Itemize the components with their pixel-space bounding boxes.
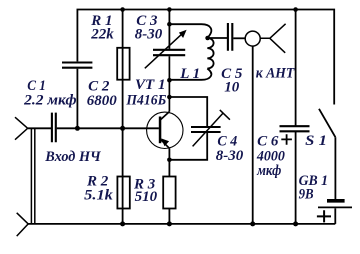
wire coil tap to C5 — [207, 37, 227, 39]
capacitor C6 plates — [280, 126, 310, 131]
node bottom bus C6 — [293, 221, 298, 226]
capacitor C2 — [62, 63, 92, 68]
wire input shield double line — [31, 128, 34, 224]
resistor R2 — [117, 177, 129, 209]
wire base wire C1 to transistor base — [57, 127, 159, 129]
svg-text:Вход НЧ: Вход НЧ — [44, 149, 101, 165]
svg-text:10: 10 — [224, 79, 240, 95]
capacitor C4 trimmer arrow — [193, 110, 230, 146]
inductor L1 — [202, 24, 214, 80]
svg-text:510: 510 — [135, 189, 158, 205]
wire C4 bottom to emitter — [169, 133, 207, 160]
wire coil top lead — [169, 23, 201, 25]
svg-text:8-30: 8-30 — [135, 27, 163, 43]
svg-text:5.1k: 5.1k — [84, 188, 113, 204]
node base wire C2 — [75, 126, 80, 131]
wire antenna connector ground drop — [252, 46, 254, 224]
svg-text:к АНТ: к АНТ — [256, 65, 295, 81]
node input wire left segment — [28, 127, 51, 129]
node coil tap — [205, 36, 210, 41]
node emitter C4 R3 — [167, 158, 172, 163]
capacitor C6 plus sign — [281, 134, 292, 145]
svg-text:мкф: мкф — [256, 163, 281, 179]
battery GB1 positive plate — [318, 206, 352, 208]
wire C6 branch — [295, 10, 297, 224]
svg-text:9В: 9В — [299, 186, 314, 202]
node top bus tank — [167, 7, 172, 12]
svg-text:L 1: L 1 — [179, 66, 200, 82]
svg-text:S 1: S 1 — [305, 133, 327, 149]
capacitor C3 arrow — [145, 33, 183, 68]
wire R1 R2 branch vertical — [122, 10, 124, 224]
battery GB1 plus sign — [317, 210, 331, 222]
svg-text:6800: 6800 — [87, 93, 118, 109]
svg-text:C 2: C 2 — [88, 79, 110, 95]
wire battery to bottom bus — [334, 208, 336, 224]
svg-text:8-30: 8-30 — [216, 148, 244, 164]
resistor R3 — [163, 177, 175, 209]
wire tank branch upper — [168, 10, 170, 49]
resistor R1 — [117, 48, 129, 80]
wire tank branch lower to collector — [160, 56, 170, 120]
svg-text:22k: 22k — [90, 27, 114, 43]
wire C5 to antenna connector — [233, 37, 245, 39]
svg-text:4000: 4000 — [256, 148, 285, 164]
node bottom bus R2 — [120, 221, 125, 226]
capacitor C1 — [52, 113, 56, 143]
node bottom bus R3 — [167, 221, 172, 226]
capacitor C5 — [228, 23, 232, 51]
capacitor C4 plates — [191, 127, 221, 132]
transistor VT1 emitter arrowhead — [161, 138, 169, 146]
svg-text:2.2 мкф: 2.2 мкф — [23, 93, 77, 109]
node tank top coil branch — [167, 22, 172, 27]
input terminal bottom chevron — [17, 213, 29, 236]
wire collector to C4 top — [169, 97, 207, 126]
node top bus R1 — [120, 7, 125, 12]
wire coil bottom lead — [169, 79, 201, 81]
antenna connector circle — [245, 31, 260, 46]
svg-text:C 6: C 6 — [257, 134, 279, 150]
node top bus C6 — [293, 7, 298, 12]
transistor VT1 circle — [147, 112, 183, 148]
capacitor C3 plates — [153, 50, 185, 55]
svg-text:VT 1: VT 1 — [135, 77, 166, 93]
wire C2 bottom to base wire — [76, 69, 78, 129]
input terminal top chevron — [15, 117, 28, 140]
wire bottom bus — [28, 223, 335, 225]
node base wire R1 R2 — [120, 126, 125, 131]
node bottom bus antenna ground — [250, 221, 255, 226]
transistor VT1 emitter diagonal — [160, 139, 170, 149]
node tank bottom coil branch — [167, 78, 172, 83]
transistor VT1 base bar — [159, 117, 162, 144]
wire top bus with left drop to C2 and right drop to S1 contact — [77, 10, 334, 105]
wire emitter down through R3 to bus — [168, 148, 170, 224]
wire S1 to battery — [334, 137, 336, 199]
antenna fork к АНТ — [260, 24, 285, 53]
capacitor C3 arrowhead — [179, 30, 187, 38]
switch S1 blade — [319, 109, 335, 137]
svg-text:П416Б: П416Б — [125, 93, 166, 109]
node collector C4 branch — [167, 95, 172, 100]
battery GB1 negative plate — [327, 199, 345, 203]
